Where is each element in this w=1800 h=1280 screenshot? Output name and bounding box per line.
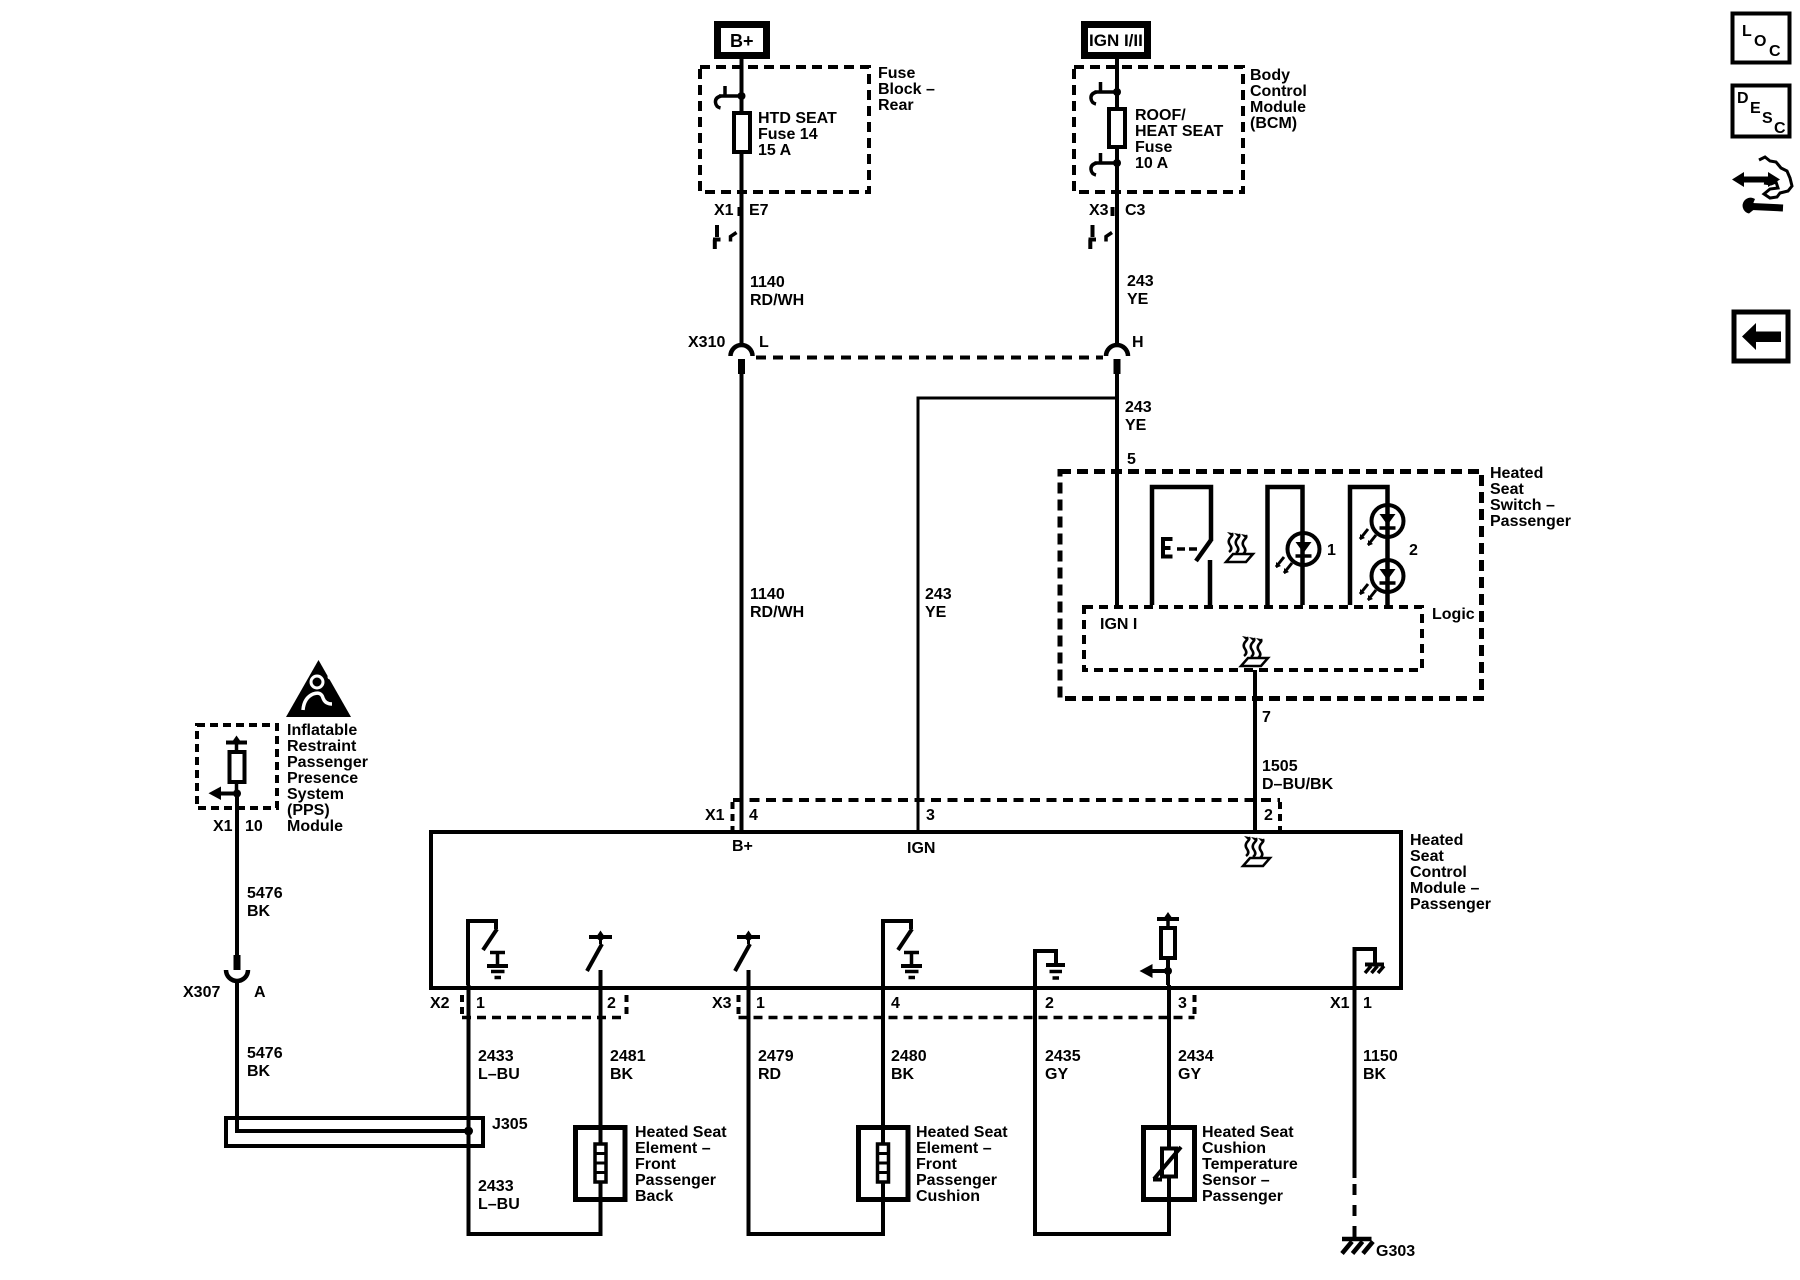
svg-text:Cushion: Cushion: [1202, 1140, 1266, 1157]
svg-text:2: 2: [1409, 542, 1418, 559]
svg-text:L: L: [1742, 23, 1752, 40]
heated seat control module box: [431, 832, 1401, 988]
wire 2481 BK pin X2-2: [599, 985, 603, 1127]
dashed connector line X310: [756, 356, 1103, 360]
svg-text:1: 1: [756, 995, 765, 1012]
connector X2 bracket: [462, 995, 627, 1018]
svg-text:Rear: Rear: [878, 97, 914, 114]
wire B+ feed lower to module: [740, 374, 744, 832]
svg-text:(PPS): (PPS): [287, 802, 330, 819]
internal switch to ground pin X3-4: [883, 921, 922, 985]
wire label 2481 BK: [610, 1048, 646, 1083]
svg-text:GY: GY: [1178, 1066, 1201, 1083]
svg-text:1: 1: [1327, 542, 1336, 559]
wire label 1140 RD/WH upper: [750, 274, 804, 309]
svg-text:B+: B+: [730, 31, 754, 51]
svg-text:Fuse 14: Fuse 14: [758, 126, 818, 143]
svg-text:5476: 5476: [247, 885, 283, 902]
svg-text:C: C: [1769, 43, 1781, 60]
fuse ROOF/HEAT SEAT Fuse 10A: [1109, 109, 1125, 147]
label Inflatable Restraint Passenger Presence System (PPS) Module: [287, 722, 368, 835]
svg-text:Element –: Element –: [635, 1140, 711, 1157]
icon wiring repair: [1732, 157, 1792, 214]
svg-text:2433: 2433: [478, 1178, 514, 1195]
seat heater icon in module: [1243, 836, 1270, 866]
connector label X3 C3: [1089, 202, 1146, 219]
svg-text:1140: 1140: [750, 274, 785, 291]
svg-text:1150: 1150: [1363, 1048, 1398, 1065]
svg-text:IGN I/II: IGN I/II: [1089, 31, 1143, 50]
svg-text:BK: BK: [610, 1066, 634, 1083]
svg-text:3: 3: [1178, 995, 1187, 1012]
svg-text:D–BU/BK: D–BU/BK: [1262, 776, 1334, 793]
svg-text:Fuse: Fuse: [878, 65, 915, 82]
wire label 2433 L-BU lower: [478, 1178, 520, 1213]
svg-text:E: E: [1750, 100, 1761, 117]
svg-text:1505: 1505: [1262, 758, 1298, 775]
wire 2433 L-BU pin X2-1 loop: [469, 985, 601, 1234]
label Heated Seat Control Module - Passenger: [1410, 832, 1491, 913]
svg-text:L–BU: L–BU: [478, 1196, 520, 1213]
signal arrow out of PPS module: [209, 787, 242, 801]
switch section U3: [1350, 487, 1388, 605]
svg-text:X3: X3: [712, 995, 732, 1012]
svg-text:D: D: [1737, 90, 1749, 107]
svg-text:1: 1: [476, 995, 485, 1012]
svg-text:Module: Module: [287, 818, 343, 835]
wire B+ feed vertical: [740, 58, 744, 344]
svg-text:1: 1: [1363, 995, 1372, 1012]
svg-text:Body: Body: [1250, 67, 1290, 84]
terminal clip pair below X1 E7: [713, 225, 737, 249]
svg-text:1140: 1140: [750, 586, 785, 603]
svg-text:243: 243: [1127, 273, 1154, 290]
icon box LOC: [1733, 14, 1790, 63]
logic dashed box: [1084, 607, 1422, 670]
power symbol IGN I/II: [1085, 25, 1148, 56]
icon box back arrow: [1734, 312, 1788, 361]
svg-text:BK: BK: [247, 903, 271, 920]
wire IGN below H to switch pin 5: [1115, 374, 1119, 607]
power symbol B+: [718, 25, 767, 56]
svg-text:Module: Module: [1250, 99, 1306, 116]
label E with dashes: [1161, 539, 1197, 558]
svg-text:RD/WH: RD/WH: [750, 604, 804, 621]
svg-text:Restraint: Restraint: [287, 738, 357, 755]
svg-text:Fuse: Fuse: [1135, 139, 1172, 156]
icon box DESC: [1733, 86, 1790, 138]
svg-text:Block –: Block –: [878, 81, 935, 98]
svg-text:A: A: [254, 984, 266, 1001]
svg-text:10 A: 10 A: [1135, 155, 1169, 172]
svg-text:Temperature: Temperature: [1202, 1156, 1298, 1173]
wire 2435 GY pin X3-2 loop: [1035, 985, 1169, 1234]
wire label 2433 L-BU upper: [478, 1048, 520, 1083]
seat heater icon in logic box: [1241, 636, 1268, 666]
svg-text:2: 2: [607, 995, 616, 1012]
internal ground pin X3-2: [1035, 951, 1065, 985]
svg-text:Back: Back: [635, 1188, 673, 1205]
svg-text:C: C: [1774, 120, 1786, 137]
svg-text:4: 4: [891, 995, 900, 1012]
svg-text:Heated: Heated: [1490, 465, 1543, 482]
svg-text:2480: 2480: [891, 1048, 927, 1065]
wire label 1150 BK: [1363, 1048, 1398, 1083]
wire label 2435 GY: [1045, 1048, 1081, 1083]
svg-text:RD/WH: RD/WH: [750, 292, 804, 309]
inline connector X307: [183, 955, 266, 1001]
heated seat element front passenger cushion box: [859, 1127, 909, 1200]
svg-text:243: 243: [925, 586, 952, 603]
internal sensor resistor pin X3-3: [1140, 912, 1180, 985]
svg-text:BK: BK: [891, 1066, 915, 1083]
wire 1150 BK pin X1-1: [1353, 985, 1357, 1238]
internal switch to ground pin X2-1: [468, 921, 508, 985]
svg-text:O: O: [1754, 33, 1766, 50]
inline connector X310 L half: [688, 334, 769, 374]
fuse HTD SEAT Fuse 14 15A: [734, 113, 750, 152]
svg-text:YE: YE: [925, 604, 947, 621]
label Fuse Block - Rear: [878, 65, 935, 114]
wire branch 243 YE to module IGN: [918, 398, 1115, 832]
label Heated Seat Element - Front Passenger Back: [635, 1124, 727, 1205]
svg-text:HEAT SEAT: HEAT SEAT: [1135, 123, 1224, 140]
svg-text:System: System: [287, 786, 344, 803]
body control module dashed box: [1074, 67, 1243, 192]
resistor in PPS module: [226, 736, 247, 794]
svg-text:Control: Control: [1410, 864, 1467, 881]
svg-text:Passenger: Passenger: [635, 1172, 716, 1189]
svg-text:Logic: Logic: [1432, 606, 1475, 623]
svg-text:BK: BK: [247, 1063, 271, 1080]
svg-text:Passenger: Passenger: [1410, 896, 1491, 913]
svg-text:RD: RD: [758, 1066, 781, 1083]
svg-text:Heated Seat: Heated Seat: [635, 1124, 727, 1141]
label Heated Seat Cushion Temperature Sensor - Passenger: [1202, 1124, 1298, 1205]
svg-text:Passenger: Passenger: [1490, 513, 1571, 530]
inflatable restraint PPS module dashed box: [197, 725, 277, 808]
svg-text:Presence: Presence: [287, 770, 358, 787]
indicator LED 2a: [1360, 505, 1404, 546]
connector X3 bracket: [739, 995, 1195, 1018]
internal chassis ground pin X1-1: [1355, 949, 1385, 985]
svg-text:ROOF/: ROOF/: [1135, 107, 1186, 124]
svg-text:Module –: Module –: [1410, 880, 1479, 897]
fuse block rear dashed box: [700, 67, 869, 192]
svg-text:IGN: IGN: [907, 840, 935, 857]
svg-text:Heated: Heated: [1410, 832, 1463, 849]
heated seat element front passenger back box: [576, 1127, 626, 1200]
svg-text:S: S: [1762, 110, 1773, 127]
wire 2480 BK pin X3-4: [881, 985, 885, 1127]
terminal clip upper in BCM: [1091, 82, 1121, 104]
wire label 5476 BK lower: [247, 1045, 283, 1080]
svg-text:2435: 2435: [1045, 1048, 1081, 1065]
svg-text:Front: Front: [916, 1156, 958, 1173]
svg-text:Seat: Seat: [1410, 848, 1444, 865]
indicator LED 2b: [1360, 560, 1404, 601]
internal switch pin X2-2: [587, 931, 612, 986]
label Body Control Module (BCM): [1250, 67, 1307, 132]
wire label 1140 RD/WH lower: [750, 586, 804, 621]
svg-text:15 A: 15 A: [758, 142, 792, 159]
switch section U1 with contact: [1152, 487, 1211, 605]
svg-text:J305: J305: [492, 1116, 528, 1133]
svg-text:X2: X2: [430, 995, 450, 1012]
svg-text:2433: 2433: [478, 1048, 514, 1065]
wire switch pin 7 to module: [1253, 670, 1257, 832]
svg-text:X1: X1: [1330, 995, 1350, 1012]
svg-text:Element –: Element –: [916, 1140, 992, 1157]
svg-text:IGN I: IGN I: [1100, 616, 1137, 633]
svg-text:G303: G303: [1376, 1243, 1415, 1260]
svg-text:5476: 5476: [247, 1045, 283, 1062]
wire label 243 YE lower: [925, 586, 952, 621]
heated seat switch dashed box: [1060, 472, 1482, 699]
wire PPS to X307: [235, 794, 239, 956]
svg-text:Passenger: Passenger: [287, 754, 368, 771]
switch section U2: [1268, 487, 1303, 605]
svg-text:H: H: [1132, 334, 1144, 351]
svg-text:Switch –: Switch –: [1490, 497, 1555, 514]
heated seat cushion temperature sensor box: [1144, 1127, 1195, 1200]
connector X1 dashed line module top: [733, 800, 1281, 830]
wire label 243 YE at junction: [1125, 399, 1152, 434]
wire label 2480 BK: [891, 1048, 927, 1083]
wire X307 to J305: [237, 982, 469, 1131]
svg-text:Heated Seat: Heated Seat: [916, 1124, 1008, 1141]
svg-text:YE: YE: [1125, 417, 1147, 434]
wire 2479 RD pin X3-1 loop: [749, 985, 884, 1234]
wire label 5476 BK upper: [247, 885, 283, 920]
svg-text:X1: X1: [213, 818, 233, 835]
inline connector X310 H half: [1106, 334, 1144, 374]
svg-text:4: 4: [749, 807, 758, 824]
svg-text:2481: 2481: [610, 1048, 646, 1065]
svg-text:Passenger: Passenger: [1202, 1188, 1283, 1205]
svg-text:Inflatable: Inflatable: [287, 722, 357, 739]
svg-text:Heated Seat: Heated Seat: [1202, 1124, 1294, 1141]
wire label 243 YE upper: [1127, 273, 1154, 308]
svg-text:Passenger: Passenger: [916, 1172, 997, 1189]
svg-text:Sensor –: Sensor –: [1202, 1172, 1270, 1189]
wire IGN feed vertical: [1115, 58, 1119, 344]
svg-text:YE: YE: [1127, 291, 1149, 308]
splice J305: [226, 1116, 528, 1146]
label ROOF/HEAT SEAT Fuse 10 A: [1135, 107, 1224, 172]
svg-text:Seat: Seat: [1490, 481, 1524, 498]
wire label 2479 RD: [758, 1048, 794, 1083]
svg-text:GY: GY: [1045, 1066, 1068, 1083]
svg-text:L: L: [759, 334, 769, 351]
seat heater icon in switch: [1226, 532, 1253, 562]
svg-text:X307: X307: [183, 984, 220, 1001]
svg-text:7: 7: [1262, 709, 1271, 726]
svg-text:X1: X1: [714, 202, 734, 219]
svg-text:X310: X310: [688, 334, 725, 351]
svg-text:Cushion: Cushion: [916, 1188, 980, 1205]
svg-text:3: 3: [926, 807, 935, 824]
svg-text:2479: 2479: [758, 1048, 794, 1065]
svg-text:2: 2: [1264, 807, 1273, 824]
connector label X1 10: [213, 818, 263, 835]
terminal clip pair below X3 C3: [1089, 225, 1113, 249]
svg-text:BK: BK: [1363, 1066, 1387, 1083]
warning triangle child seat: [286, 660, 351, 717]
svg-text:L–BU: L–BU: [478, 1066, 520, 1083]
svg-text:X3: X3: [1089, 202, 1109, 219]
terminal clip lower in BCM: [1091, 153, 1121, 175]
svg-text:E7: E7: [749, 202, 769, 219]
label HTD SEAT Fuse 14 15 A: [758, 110, 837, 159]
svg-text:HTD SEAT: HTD SEAT: [758, 110, 837, 127]
terminal clip in fuse block: [715, 86, 745, 108]
svg-text:243: 243: [1125, 399, 1152, 416]
svg-text:(BCM): (BCM): [1250, 115, 1297, 132]
label Heated Seat Element - Front Passenger Cushion: [916, 1124, 1008, 1205]
wire label 2434 GY: [1178, 1048, 1214, 1083]
svg-text:10: 10: [245, 818, 263, 835]
svg-text:5: 5: [1127, 451, 1136, 468]
svg-text:Front: Front: [635, 1156, 677, 1173]
ground G303: [1342, 1239, 1415, 1260]
svg-text:Control: Control: [1250, 83, 1307, 100]
svg-text:C3: C3: [1125, 202, 1146, 219]
indicator LED 1: [1276, 533, 1320, 574]
wire 2434 GY pin X3-3: [1167, 985, 1171, 1127]
wire label 1505 D-BU/BK: [1262, 758, 1334, 793]
connector label X1 E7: [714, 202, 769, 219]
svg-text:X1: X1: [705, 807, 725, 824]
svg-text:B+: B+: [732, 838, 753, 855]
label Heated Seat Switch - Passenger: [1490, 465, 1571, 530]
internal switch pin X3-1: [735, 931, 760, 986]
svg-text:2: 2: [1045, 995, 1054, 1012]
svg-text:2434: 2434: [1178, 1048, 1214, 1065]
